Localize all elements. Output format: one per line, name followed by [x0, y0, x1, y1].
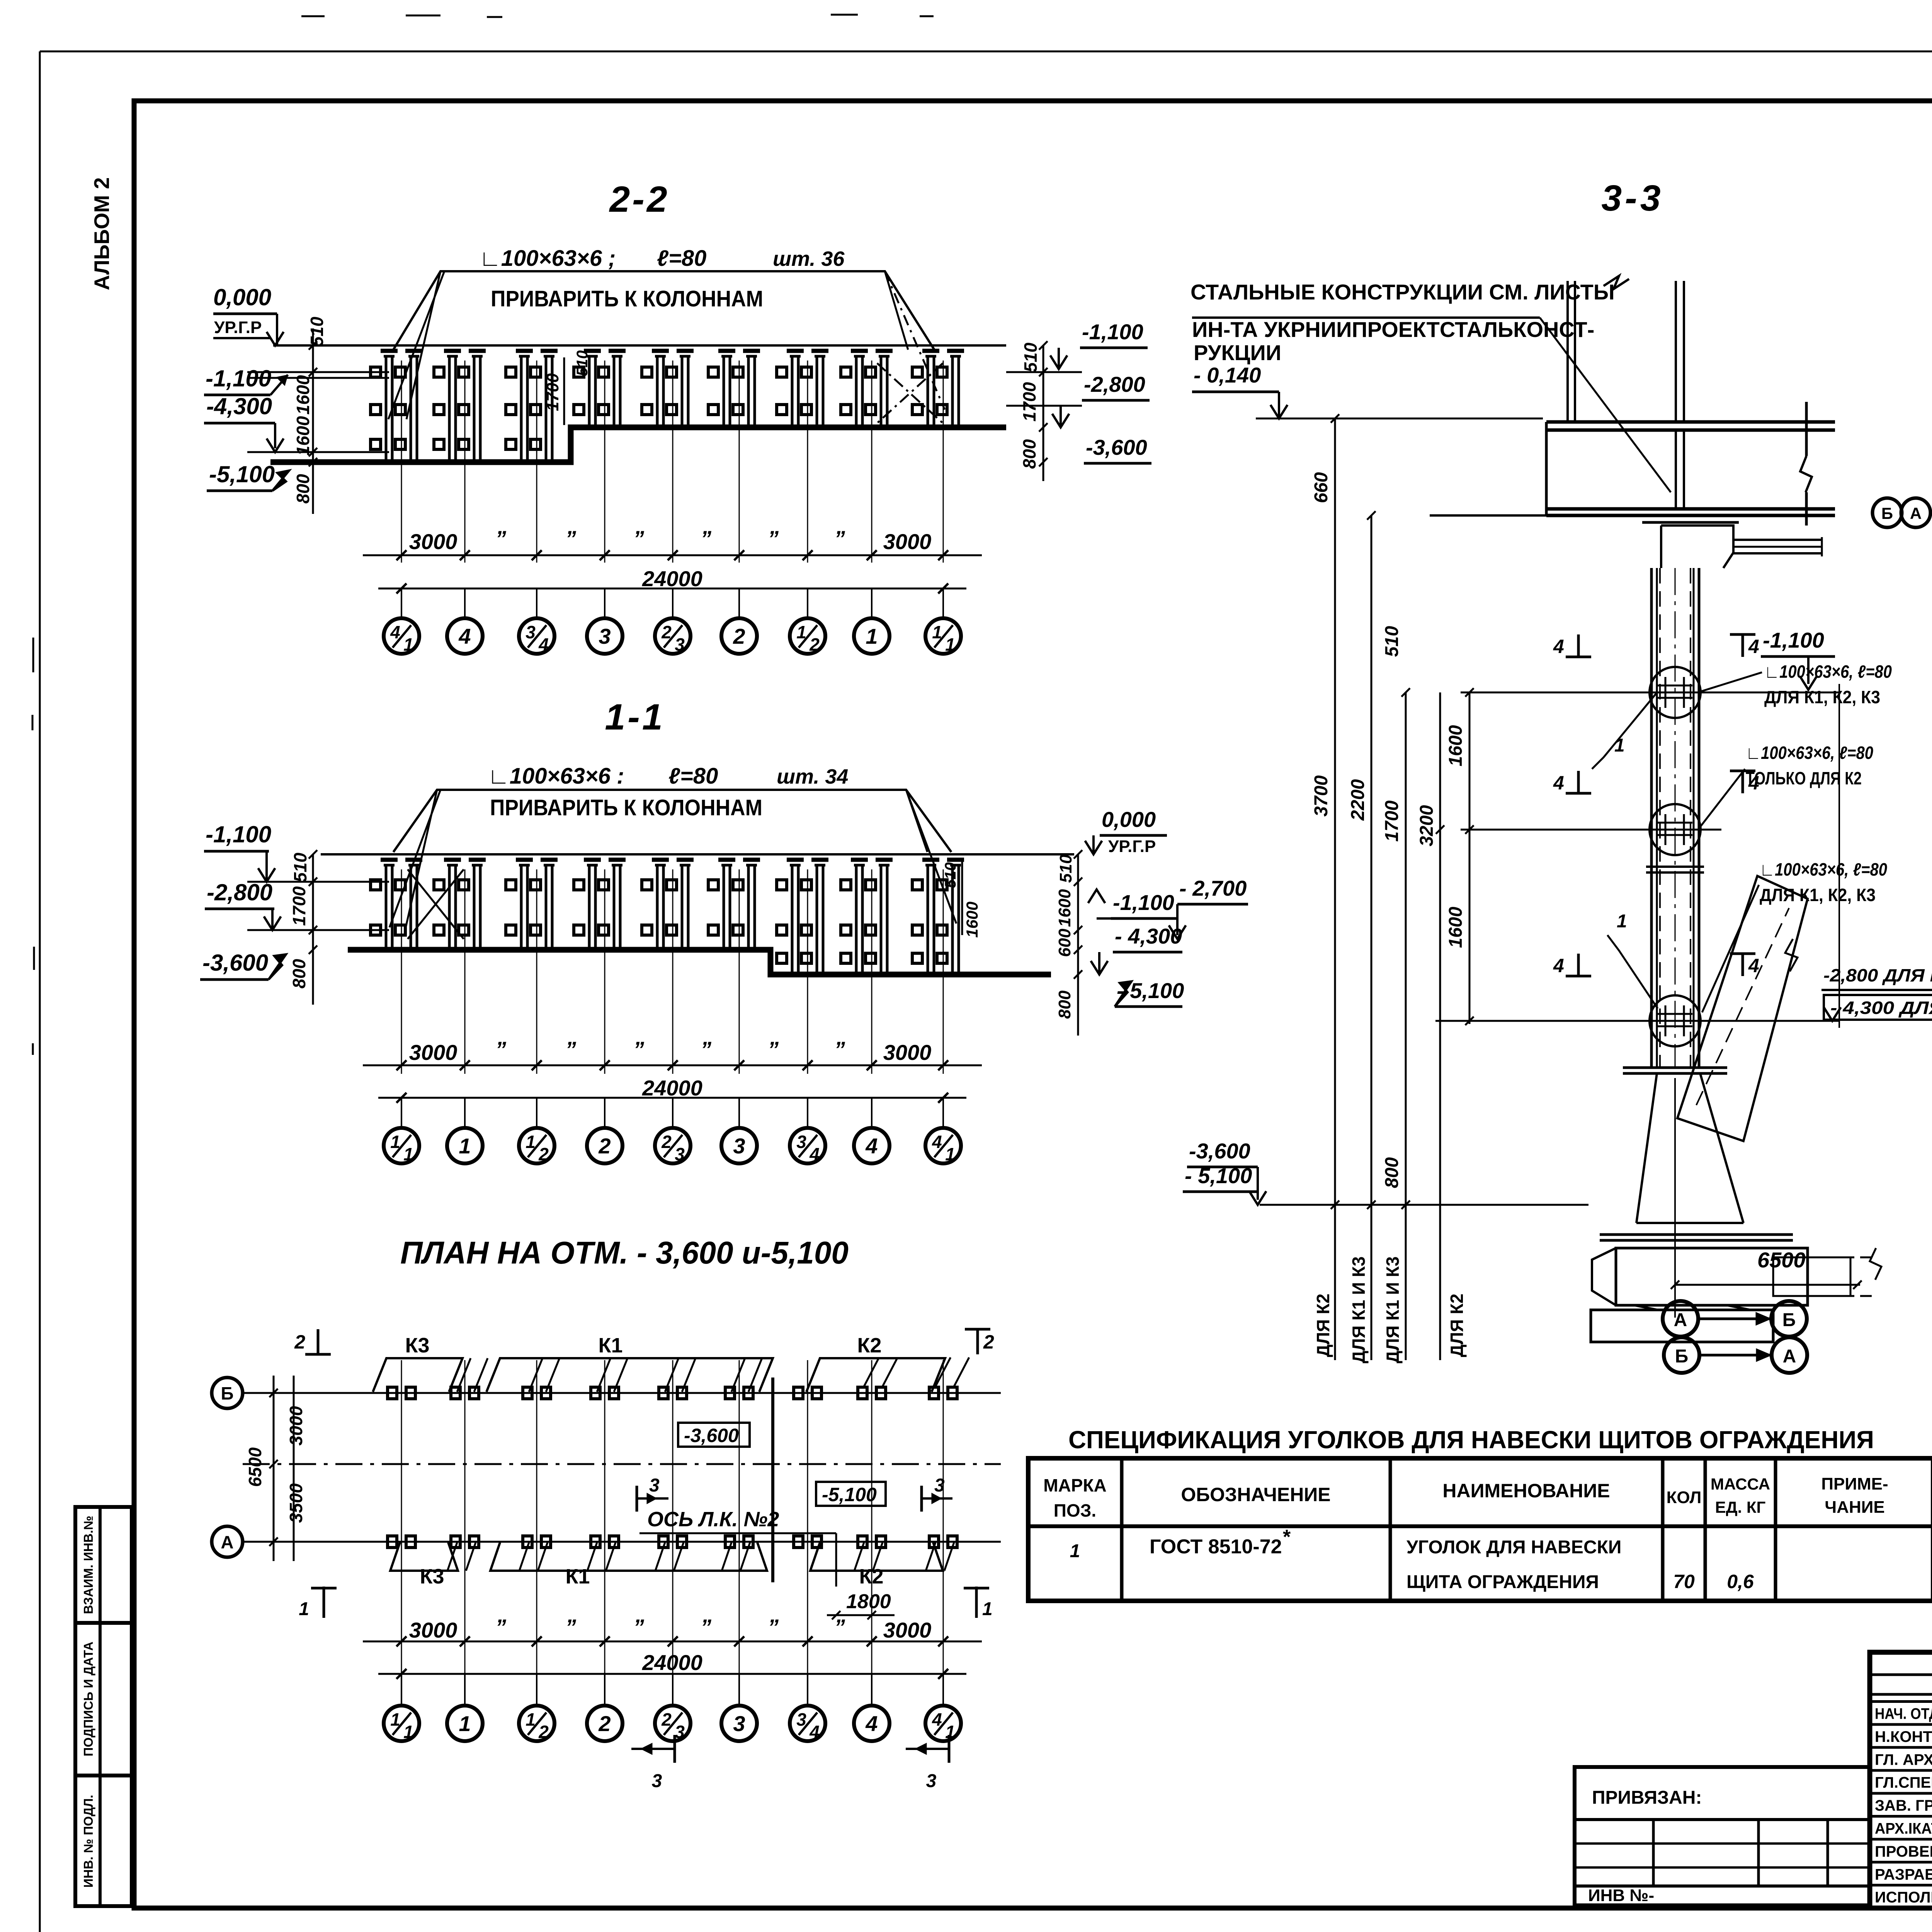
column at x=1741 [672, 869, 673, 1074]
svg-text:”: ” [565, 526, 576, 551]
center line [243, 1463, 1001, 1465]
svg-text:1600: 1600 [1446, 906, 1466, 948]
plan column bolt squares [388, 1387, 397, 1399]
svg-text:510: 510 [574, 350, 591, 376]
svg-text:НАЧ. ОТД.: НАЧ. ОТД. [1875, 1706, 1932, 1723]
section mark 1 left [323, 1587, 325, 1618]
svg-text:2: 2 [661, 1709, 672, 1730]
svg-text:ИНВ №-: ИНВ №- [1588, 1886, 1654, 1905]
svg-text:1: 1 [796, 622, 806, 642]
svg-text:1800: 1800 [846, 1590, 891, 1613]
svg-text:1: 1 [459, 1134, 471, 1158]
left vertical dim plan [273, 1376, 275, 1561]
svg-text:1700: 1700 [1382, 800, 1402, 842]
column splice lines [1646, 866, 1704, 868]
svg-text:1600: 1600 [1055, 889, 1074, 927]
svg-text:1: 1 [403, 634, 413, 655]
svg-text:4: 4 [932, 1709, 942, 1730]
leader to beam [1540, 318, 1671, 492]
column at x=2090 [807, 361, 808, 563]
svg-text:”: ” [834, 1615, 845, 1639]
svg-text:3000: 3000 [883, 529, 932, 554]
svg-text:ПРИВЯЗАН:: ПРИВЯЗАН: [1592, 1787, 1702, 1808]
svg-text:КОЛ: КОЛ [1667, 1488, 1702, 1507]
svg-text:3200: 3200 [1417, 805, 1437, 846]
level lines right part [1461, 692, 1839, 694]
column at x=2090 [807, 869, 808, 1074]
svg-text:А: А [1674, 1310, 1687, 1330]
svg-text:660: 660 [1311, 472, 1332, 503]
svg-text:МАРКА: МАРКА [1043, 1475, 1107, 1495]
left stamp table [75, 1507, 132, 1906]
rail right of column [1733, 539, 1822, 541]
svg-text:К1: К1 [599, 1334, 623, 1357]
svg-text:∟100×63×6, ℓ=80: ∟100×63×6, ℓ=80 [1764, 662, 1892, 682]
svg-text:ℓ=80: ℓ=80 [668, 764, 718, 789]
section mark 3 mid-right [920, 1486, 923, 1512]
svg-text:1: 1 [403, 1722, 413, 1742]
4 section marks lower [1577, 954, 1580, 976]
svg-text:УР.Г.Р: УР.Г.Р [1108, 837, 1156, 856]
svg-text:1: 1 [526, 1132, 536, 1152]
svg-text:3000: 3000 [409, 529, 457, 554]
svg-text:ПОЗ.: ПОЗ. [1054, 1500, 1096, 1520]
svg-text:”: ” [633, 1037, 644, 1061]
svg-text:А: А [1910, 504, 1922, 522]
boxed level -5,100 [816, 1482, 886, 1506]
svg-text:800: 800 [1382, 1157, 1402, 1188]
svg-text:-2,800: -2,800 [207, 879, 272, 905]
svg-text:Б: Б [221, 1383, 233, 1403]
svg-text:3: 3 [733, 1134, 745, 1158]
svg-text:1600: 1600 [293, 375, 313, 415]
svg-text:УР.Г.Р: УР.Г.Р [214, 318, 262, 337]
svg-text:- 2,700: - 2,700 [1179, 876, 1247, 900]
svg-text:3: 3 [675, 634, 685, 655]
svg-text:”: ” [495, 1037, 506, 1061]
svg-text:24000: 24000 [642, 1076, 702, 1100]
svg-text:4: 4 [865, 1134, 878, 1158]
svg-text:1: 1 [403, 1144, 413, 1164]
svg-text:3: 3 [599, 624, 611, 648]
svg-text:1: 1 [459, 1711, 471, 1736]
detail circles on column [1650, 667, 1701, 718]
svg-text:-3,600: -3,600 [1086, 435, 1147, 459]
svg-text:3000: 3000 [883, 1618, 932, 1642]
svg-text:1: 1 [982, 1599, 993, 1619]
svg-text:АРХ.IКАТ.: АРХ.IКАТ. [1875, 1820, 1932, 1837]
svg-text:ПЛАН НА ОТМ. - 3,600 и-5,100: ПЛАН НА ОТМ. - 3,600 и-5,100 [400, 1235, 849, 1270]
svg-text:”: ” [565, 1037, 576, 1061]
svg-text:6500: 6500 [245, 1447, 265, 1487]
pedestal [1636, 1073, 1743, 1223]
svg-text:-1,100: -1,100 [206, 821, 271, 847]
axis line and 6500 dim [1674, 1078, 1676, 1318]
weld note bracket 1-1 [393, 790, 951, 852]
svg-text:-5,100: -5,100 [822, 1484, 877, 1505]
svg-text:1: 1 [945, 634, 955, 655]
svg-text:”: ” [768, 1037, 779, 1061]
grid circle B [212, 1378, 243, 1408]
svg-text:3-3: 3-3 [1601, 178, 1663, 219]
svg-text:ДЛЯ К1 И К3: ДЛЯ К1 И К3 [1383, 1257, 1403, 1364]
svg-text:2: 2 [809, 634, 820, 655]
crane beam box [1546, 420, 1835, 424]
svg-text:”: ” [701, 1615, 711, 1639]
column base [1623, 1066, 1727, 1069]
svg-text:ЕД. КГ: ЕД. КГ [1715, 1498, 1766, 1516]
svg-text:510: 510 [1020, 342, 1041, 372]
column at x=1039 [401, 869, 402, 1074]
svg-text:4: 4 [932, 1132, 942, 1152]
svg-text:3: 3 [675, 1144, 685, 1164]
column at x=1389 [536, 361, 537, 563]
inclined brace [1677, 876, 1808, 1141]
section mark 3 bottom-left [673, 1735, 676, 1763]
svg-text:ЩИТА ОГРАЖДЕНИЯ: ЩИТА ОГРАЖДЕНИЯ [1406, 1572, 1599, 1592]
svg-text:СПЕЦИФИКАЦИЯ УГОЛКОВ ДЛЯ НАВЕС: СПЕЦИФИКАЦИЯ УГОЛКОВ ДЛЯ НАВЕСКИ ЩИТОВ О… [1068, 1426, 1874, 1454]
section mark 2 right [976, 1329, 979, 1354]
svg-text:510: 510 [1382, 626, 1402, 657]
X brace cols 8-9 2-2 [877, 363, 943, 423]
column at x=1913 [739, 361, 740, 563]
column at x=1039 [401, 361, 402, 563]
svg-text:1: 1 [390, 1709, 400, 1730]
svg-text:4: 4 [809, 1722, 820, 1742]
svg-text:1: 1 [299, 1599, 309, 1619]
svg-text:3000: 3000 [409, 1618, 457, 1642]
svg-text:ВЗАИМ. ИНВ.№: ВЗАИМ. ИНВ.№ [81, 1516, 95, 1614]
floor line -5.100/-3.600 [270, 427, 1006, 462]
left thin level lines [247, 371, 389, 373]
svg-text:ДЛЯ К1, К2, К3: ДЛЯ К1, К2, К3 [1764, 687, 1880, 707]
svg-text:-3,600: -3,600 [684, 1425, 739, 1446]
lower column box [1650, 568, 1653, 1068]
4 section marks mid [1577, 771, 1580, 793]
grid circle A [212, 1526, 243, 1557]
svg-text:1: 1 [1617, 911, 1627, 932]
svg-text:”: ” [768, 526, 779, 551]
svg-text:ДЛЯ К2: ДЛЯ К2 [1313, 1294, 1333, 1357]
svg-text:ПРИВАРИТЬ К КОЛОННАМ: ПРИВАРИТЬ К КОЛОННАМ [490, 795, 762, 820]
svg-text:УГОЛОК ДЛЯ НАВЕСКИ: УГОЛОК ДЛЯ НАВЕСКИ [1406, 1537, 1621, 1558]
right dim line 2-2 [1043, 345, 1044, 481]
svg-text:”: ” [834, 1037, 845, 1061]
svg-text:3000: 3000 [286, 1406, 306, 1446]
svg-text:ОБОЗНАЧЕНИЕ: ОБОЗНАЧЕНИЕ [1181, 1484, 1330, 1505]
svg-text:6500: 6500 [1757, 1248, 1806, 1272]
svg-text:4: 4 [865, 1711, 878, 1736]
svg-text:РАЗРАБ.: РАЗРАБ. [1875, 1866, 1932, 1883]
svg-text:3000: 3000 [883, 1040, 932, 1065]
svg-text:А: А [1783, 1346, 1796, 1367]
K2 bracket top [806, 1358, 945, 1392]
svg-text:4: 4 [1748, 636, 1759, 657]
mid dim 1700/510 2-2 [563, 357, 565, 425]
svg-text:СТАЛЬНЫЕ КОНСТРУКЦИИ СМ. ЛИСТЫ: СТАЛЬНЫЕ КОНСТРУКЦИИ СМ. ЛИСТЫ [1190, 280, 1615, 304]
svg-text:800: 800 [1019, 439, 1039, 469]
svg-text:Б: Б [1675, 1346, 1689, 1367]
left thin lines 1-1 [247, 881, 389, 883]
svg-text:Н.КОНТР.: Н.КОНТР. [1875, 1728, 1932, 1745]
column at x=1389 [536, 869, 537, 1074]
svg-text:510: 510 [1056, 854, 1075, 883]
svg-text:ЧАНИЕ: ЧАНИЕ [1825, 1498, 1884, 1517]
svg-text:1700: 1700 [1019, 382, 1039, 422]
svg-text:К3: К3 [420, 1565, 444, 1588]
svg-text:2: 2 [598, 1134, 611, 1158]
svg-text:4: 4 [1553, 772, 1564, 794]
svg-text:А: А [221, 1532, 233, 1552]
A-B direction circles [1663, 1301, 1698, 1337]
svg-text:∟100×63×6 :: ∟100×63×6 : [488, 764, 624, 789]
column at x=2441 [943, 361, 944, 563]
svg-text:2200: 2200 [1348, 779, 1368, 821]
svg-text:1700: 1700 [289, 886, 309, 926]
section mark 3 mid-left [636, 1486, 638, 1512]
svg-text:ДЛЯ К2: ДЛЯ К2 [1447, 1294, 1467, 1357]
svg-text:1: 1 [866, 624, 878, 648]
svg-text:ГЛ.СПЕЦ.: ГЛ.СПЕЦ. [1875, 1774, 1932, 1791]
dim verticals 3-3 [1334, 418, 1336, 1360]
svg-text:- 4,300: - 4,300 [1115, 924, 1182, 948]
svg-text:ИН-ТА УКРНИИПРОЕКТСТАЛЬКОНСТ-: ИН-ТА УКРНИИПРОЕКТСТАЛЬКОНСТ- [1192, 317, 1594, 342]
svg-text:шт. 36: шт. 36 [773, 247, 845, 270]
scan noise left edge [32, 638, 34, 1055]
svg-text:∟100×63×6, ℓ=80: ∟100×63×6, ℓ=80 [1760, 859, 1887, 879]
svg-text:3500: 3500 [286, 1483, 306, 1523]
svg-text:800: 800 [293, 474, 313, 503]
4 section marks upper [1577, 634, 1580, 657]
spec table [1028, 1458, 1932, 1601]
svg-text:АЛЬБОМ 2: АЛЬБОМ 2 [90, 177, 114, 291]
svg-text:1: 1 [945, 1144, 955, 1164]
boxed level -3,600 [678, 1423, 750, 1447]
grid line B [243, 1392, 1001, 1394]
machine box right [1616, 1248, 1808, 1305]
svg-text:ЗАВ. ГР.: ЗАВ. ГР. [1875, 1797, 1932, 1814]
svg-text:4: 4 [458, 624, 471, 648]
heavy divider line [771, 1378, 774, 1582]
svg-text:3: 3 [526, 622, 536, 642]
svg-text:- 0,140: - 0,140 [1194, 363, 1261, 387]
svg-text:-2,800: -2,800 [1084, 372, 1145, 396]
svg-text:800: 800 [289, 959, 309, 988]
upper column I-beam [1566, 281, 1569, 422]
svg-text:3: 3 [649, 1475, 660, 1496]
svg-text:ИНВ. № ПОДЛ.: ИНВ. № ПОДЛ. [81, 1795, 95, 1888]
svg-text:2: 2 [983, 1331, 994, 1353]
svg-text:1: 1 [932, 622, 942, 642]
svg-text:3: 3 [926, 1771, 937, 1791]
column axis circles [401, 1098, 402, 1128]
ground line 0.000 [273, 344, 1006, 347]
svg-text:-2,800 ДЛЯ К1, К3: -2,800 ДЛЯ К1, К3 [1823, 965, 1932, 985]
left dim line 2-2 [312, 328, 314, 514]
svg-text:шт. 34: шт. 34 [777, 765, 848, 788]
svg-text:РУКЦИИ: РУКЦИИ [1194, 340, 1281, 365]
beam left extension lines [1430, 514, 1546, 517]
svg-text:*: * [1283, 1526, 1291, 1548]
svg-text:2: 2 [538, 1144, 549, 1164]
svg-text:3: 3 [675, 1722, 685, 1742]
svg-text:4: 4 [390, 622, 400, 642]
svg-text:- 4,300 ДЛЯ К2: - 4,300 ДЛЯ К2 [1830, 998, 1932, 1018]
svg-text:3: 3 [796, 1132, 806, 1152]
column axis circles [401, 1674, 402, 1706]
svg-text:2: 2 [538, 1722, 549, 1742]
X brace cols 1-2 1-1 [408, 869, 464, 939]
column at x=1565 [604, 869, 605, 1074]
svg-text:70: 70 [1673, 1571, 1695, 1592]
svg-text:”: ” [495, 1615, 506, 1639]
svg-text:1: 1 [390, 1132, 400, 1152]
svg-text:К3: К3 [405, 1334, 430, 1357]
svg-text:”: ” [495, 526, 506, 551]
svg-text:ПОДПИСЬ И ДАТА: ПОДПИСЬ И ДАТА [81, 1641, 95, 1756]
svg-text:4: 4 [538, 634, 549, 655]
svg-text:3: 3 [652, 1771, 662, 1791]
svg-text:-1,100: -1,100 [1082, 320, 1143, 344]
svg-text:К2: К2 [859, 1565, 884, 1588]
svg-text:”: ” [768, 1615, 779, 1639]
column at x=1203 [464, 361, 466, 563]
ground line 1-1 [321, 853, 1074, 855]
section mark 3 bottom-right [948, 1735, 951, 1763]
svg-text:ГОСТ 8510-72: ГОСТ 8510-72 [1150, 1536, 1282, 1558]
svg-text:-1,100: -1,100 [1113, 890, 1174, 915]
column at x=1741 [672, 361, 673, 563]
svg-text:3: 3 [796, 1709, 806, 1730]
svg-text:Б: Б [1782, 1310, 1796, 1330]
weld note bracket 2-2 [393, 271, 934, 350]
svg-text:ℓ=80: ℓ=80 [657, 246, 706, 271]
grid line A [243, 1541, 1001, 1543]
column at x=1913 [739, 869, 740, 1074]
svg-text:2: 2 [294, 1331, 305, 1353]
svg-text:ДЛЯ К1, К2, К3: ДЛЯ К1, К2, К3 [1760, 885, 1876, 905]
column at x=2441 [943, 869, 944, 1074]
scan noise dashes top edge [301, 14, 1932, 17]
svg-text:Б: Б [1881, 504, 1893, 522]
B A axis circles [1872, 498, 1902, 527]
svg-text:3: 3 [733, 1711, 745, 1736]
svg-text:”: ” [633, 1615, 644, 1639]
svg-text:К1: К1 [566, 1565, 590, 1588]
svg-text:ДЛЯ К1 И К3: ДЛЯ К1 И К3 [1349, 1257, 1369, 1364]
svg-text:3000: 3000 [409, 1040, 457, 1065]
svg-text:ПРИВАРИТЬ К КОЛОННАМ: ПРИВАРИТЬ К КОЛОННАМ [491, 286, 763, 311]
svg-text:2: 2 [661, 1132, 672, 1152]
svg-text:3700: 3700 [1311, 775, 1332, 816]
left dim line 1-1 [312, 854, 314, 1005]
column at x=2256 [871, 869, 872, 1074]
svg-text:ПРИМЕ-: ПРИМЕ- [1821, 1475, 1888, 1493]
column at x=1203 [464, 869, 466, 1074]
svg-text:0,6: 0,6 [1727, 1571, 1754, 1592]
level line -0,140 [1256, 418, 1543, 420]
svg-text:0,000: 0,000 [1102, 807, 1156, 832]
svg-text:24000: 24000 [642, 566, 702, 591]
right dim line 1-1 [1077, 854, 1079, 1036]
svg-text:2-2: 2-2 [609, 179, 669, 220]
svg-text:0,000: 0,000 [213, 284, 271, 310]
svg-text:-1,100: -1,100 [1763, 628, 1824, 652]
title block outer [1870, 1652, 1932, 1908]
svg-text:∟100×63×6, ℓ=80: ∟100×63×6, ℓ=80 [1746, 743, 1873, 763]
svg-text:24000: 24000 [642, 1650, 702, 1675]
svg-text:2: 2 [733, 624, 745, 648]
svg-text:4: 4 [809, 1144, 820, 1164]
plan grid verticals [401, 1360, 402, 1703]
svg-text:2: 2 [661, 622, 672, 642]
title block left columns [1870, 1673, 1932, 1676]
svg-text:-5,100: -5,100 [209, 461, 275, 487]
section mark 1 right [975, 1587, 978, 1618]
svg-text:510: 510 [290, 852, 310, 882]
bracket under beam [1661, 526, 1733, 568]
svg-text:”: ” [701, 1037, 711, 1061]
svg-text:1600: 1600 [963, 901, 981, 937]
svg-text:К2: К2 [857, 1334, 882, 1357]
column at x=2256 [871, 361, 872, 563]
svg-text:2: 2 [598, 1711, 611, 1736]
column axis circles [401, 588, 402, 618]
column at x=1565 [604, 361, 605, 563]
privyazan table [1575, 1767, 1870, 1905]
svg-text:1600: 1600 [1446, 725, 1466, 766]
svg-text:”: ” [565, 1615, 576, 1639]
svg-text:ТОЛЬКО ДЛЯ К2: ТОЛЬКО ДЛЯ К2 [1746, 768, 1862, 788]
svg-text:”: ” [701, 526, 711, 551]
svg-text:-3,600: -3,600 [202, 950, 268, 976]
svg-text:600: 600 [1055, 929, 1074, 957]
svg-text:”: ” [834, 526, 845, 551]
K3 bracket top [373, 1358, 463, 1392]
svg-text:- 5,100: - 5,100 [1185, 1163, 1252, 1188]
svg-text:ПРОВЕР.: ПРОВЕР. [1875, 1843, 1932, 1860]
svg-text:510: 510 [307, 316, 327, 346]
svg-text:-3,600: -3,600 [1189, 1139, 1250, 1163]
svg-text:МАССА: МАССА [1711, 1475, 1770, 1493]
svg-text:1700: 1700 [543, 373, 562, 411]
svg-text:1: 1 [526, 1709, 536, 1730]
svg-text:”: ” [633, 526, 644, 551]
svg-text:510: 510 [942, 862, 959, 888]
svg-text:800: 800 [1055, 990, 1074, 1019]
svg-text:ОСЬ Л.К. №2: ОСЬ Л.К. №2 [647, 1508, 779, 1531]
K1 bracket top [486, 1358, 773, 1392]
mid dims 510/1600 1-1 [961, 862, 963, 935]
section mark 2 left [317, 1329, 320, 1354]
svg-text:4: 4 [1553, 955, 1564, 976]
floor line -3,600/-5,100 [348, 950, 1051, 975]
svg-text:1: 1 [1070, 1541, 1080, 1561]
svg-text:-4,300: -4,300 [206, 393, 272, 419]
svg-text:1-1: 1-1 [605, 697, 665, 738]
svg-text:ИСПОЛН.: ИСПОЛН. [1875, 1889, 1932, 1906]
svg-text:1600: 1600 [293, 416, 313, 456]
axis A line [1930, 512, 1932, 514]
svg-text:ГЛ. АРХ.: ГЛ. АРХ. [1875, 1751, 1932, 1768]
svg-text:НАИМЕНОВАНИЕ: НАИМЕНОВАНИЕ [1442, 1480, 1610, 1502]
svg-text:4: 4 [1553, 636, 1564, 657]
footing slab [1600, 1233, 1793, 1236]
svg-text:∟100×63×6 ;: ∟100×63×6 ; [479, 246, 616, 271]
svg-text:3: 3 [934, 1475, 945, 1496]
